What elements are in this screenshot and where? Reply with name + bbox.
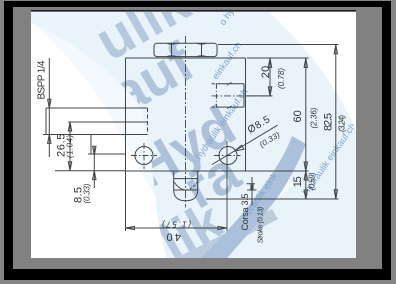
svg-text:(2.36): (2.36) bbox=[309, 107, 318, 128]
dim 40 arrows bbox=[126, 226, 227, 229]
hex nut chamfer arcs bottom bbox=[167, 55, 207, 58]
svg-text:(1.04): (1.04) bbox=[65, 135, 74, 158]
left hole crosshair bbox=[131, 143, 157, 169]
plunger dome bbox=[174, 190, 198, 201]
plunger seat line bbox=[174, 189, 198, 191]
svg-text:(0.78): (0.78) bbox=[277, 68, 286, 89]
svg-text:Corsa 3.5: Corsa 3.5 bbox=[240, 194, 250, 231]
svg-text:(0.33): (0.33) bbox=[83, 183, 92, 203]
dim 40 line bbox=[126, 227, 227, 229]
svg-text:20: 20 bbox=[260, 66, 272, 79]
white drawing page bbox=[31, 9, 356, 258]
dim 20 arrows bbox=[268, 58, 271, 96]
page top dark edge bbox=[31, 9, 356, 11]
hex nut facet dividers bbox=[172, 43, 202, 56]
left port bore hidden end bbox=[147, 108, 149, 135]
extension line plunger bottom right bbox=[206, 198, 339, 200]
dim 20 line bbox=[269, 58, 271, 96]
svg-text:60: 60 bbox=[292, 110, 304, 122]
dim 82.5 arrows bbox=[334, 45, 337, 199]
extension line port center for dim 20 bbox=[246, 95, 273, 97]
svg-text:(3.24): (3.24) bbox=[338, 115, 347, 132]
dim 8.5 arrows bbox=[93, 146, 96, 179]
corsa dim line bbox=[251, 177, 253, 206]
dim 26.5 arrows bbox=[68, 122, 71, 171]
right hole circle bbox=[219, 147, 237, 165]
right port hidden left edge bbox=[215, 84, 217, 107]
left hole circle bbox=[135, 147, 153, 165]
BSPP arrow down bbox=[48, 99, 51, 108]
extension line block top right bbox=[247, 57, 309, 59]
watermark pale wedge bbox=[31, 9, 358, 258]
BSPP arrow up bbox=[48, 135, 51, 144]
hex nut outline bbox=[154, 43, 217, 56]
diameter leader line bbox=[212, 125, 278, 164]
left port bore line bbox=[68, 121, 148, 123]
dim 8.5 line bbox=[93, 147, 95, 188]
left port outer top line bbox=[46, 107, 148, 109]
svg-text:(0.59): (0.59) bbox=[308, 172, 317, 190]
plunger inner line bbox=[174, 178, 198, 180]
corsa arrows bbox=[251, 184, 254, 190]
dim 60 line bbox=[305, 58, 307, 171]
right port rectangle bbox=[216, 84, 244, 107]
right port dash marks bbox=[212, 84, 216, 107]
svg-text:15: 15 bbox=[292, 176, 304, 187]
vertical centerline bbox=[185, 36, 187, 208]
plunger sides bbox=[174, 171, 198, 190]
hex nut chamfer arcs top bbox=[167, 42, 207, 45]
right port thread break ticks bbox=[227, 82, 232, 108]
svg-text:82.5: 82.5 bbox=[323, 113, 335, 131]
extension line nut top right bbox=[218, 44, 339, 46]
plunger retracted arc bbox=[174, 182, 186, 191]
right hole vertical extension to 40 dim bbox=[226, 141, 228, 231]
left port end vertical bbox=[45, 108, 47, 135]
watermark swoosh white gap bbox=[177, 180, 293, 270]
svg-text:BSPP 1/4: BSPP 1/4 bbox=[37, 60, 48, 99]
dim 15 line bbox=[305, 171, 307, 199]
dim 82.5 line bbox=[335, 45, 337, 200]
right hole crosshair horizontal bbox=[214, 155, 241, 157]
dim 60 arrows bbox=[304, 58, 307, 171]
main body block outline bbox=[126, 58, 246, 231]
left port step vertical bbox=[90, 135, 92, 155]
plunger retracted arc hidden half bbox=[186, 182, 198, 191]
BSPP leader line bbox=[48, 58, 50, 157]
dim 26.5 line bbox=[69, 122, 71, 171]
watermark swoosh light band bbox=[168, 209, 278, 270]
watermark swoosh dark band bottom right bbox=[194, 136, 306, 274]
svg-text:Stroke (0.13): Stroke (0.13) bbox=[256, 206, 265, 244]
dim 15 arrows bbox=[304, 171, 307, 199]
watermark light blue band bbox=[31, 9, 358, 258]
left port outer bottom line bbox=[88, 153, 126, 155]
diameter leader arrow bbox=[234, 145, 244, 151]
right port centerline bbox=[212, 95, 273, 97]
extension line block bottom both sides bbox=[55, 170, 309, 172]
corsa ticks bbox=[247, 184, 257, 190]
left port lower line bbox=[43, 134, 148, 136]
